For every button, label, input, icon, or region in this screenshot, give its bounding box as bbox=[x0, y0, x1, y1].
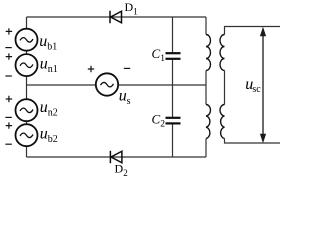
svg-text:C: C bbox=[152, 111, 161, 126]
inductor L1 primary upper winding bbox=[206, 35, 211, 71]
diode D2 bbox=[110, 151, 122, 163]
wire primary bottom lead bbox=[205, 139, 207, 158]
source u_n2 bbox=[16, 99, 38, 121]
svg-text:u: u bbox=[40, 126, 48, 143]
wire left vertical source chain bbox=[26, 17, 28, 157]
diode D1 bbox=[110, 11, 122, 23]
svg-text:D: D bbox=[115, 162, 124, 176]
source u_b1 bbox=[16, 29, 38, 51]
capacitor C2 plates bbox=[166, 118, 181, 124]
svg-text:u: u bbox=[40, 56, 48, 73]
source u_s bbox=[96, 73, 118, 95]
wire secondary top lead bbox=[225, 27, 281, 35]
source u_n1 bbox=[16, 54, 38, 76]
wire secondary bottom lead bbox=[225, 139, 281, 144]
svg-text:u: u bbox=[119, 88, 127, 105]
wire top horizontal bbox=[27, 16, 207, 18]
wire primary center tap bbox=[205, 71, 207, 105]
wire bottom horizontal bbox=[27, 156, 207, 158]
polarity signs u_b2 bbox=[5, 122, 12, 144]
wire secondary middle bbox=[224, 71, 226, 105]
inductor L4 secondary lower winding bbox=[220, 105, 225, 139]
svg-text:u: u bbox=[39, 33, 47, 50]
svg-text:n1: n1 bbox=[48, 64, 58, 75]
svg-text:b2: b2 bbox=[48, 134, 58, 145]
svg-text:n2: n2 bbox=[48, 108, 58, 119]
svg-text:sc: sc bbox=[252, 84, 261, 95]
wire primary top lead bbox=[205, 17, 207, 35]
wire capacitor branch middle bbox=[172, 59, 174, 118]
svg-text:1: 1 bbox=[160, 54, 165, 64]
svg-text:u: u bbox=[40, 99, 48, 116]
inductor L3 secondary upper winding bbox=[220, 35, 225, 71]
svg-text:C: C bbox=[152, 46, 161, 61]
arrow u_sc measurement bbox=[260, 27, 266, 143]
svg-text:b1: b1 bbox=[47, 42, 57, 53]
polarity signs u_n1 bbox=[5, 53, 12, 76]
wire middle horizontal bbox=[27, 84, 207, 86]
svg-text:1: 1 bbox=[133, 7, 138, 17]
inductor L2 primary lower winding bbox=[206, 105, 210, 139]
source u_b2 bbox=[16, 124, 38, 146]
wire capacitor branch upper bbox=[172, 17, 174, 53]
wire capacitor branch lower bbox=[172, 124, 174, 157]
svg-text:D: D bbox=[125, 0, 134, 14]
svg-text:s: s bbox=[127, 96, 131, 107]
polarity signs u_b1 bbox=[5, 28, 12, 47]
polarity signs u_n2 bbox=[5, 96, 12, 118]
svg-text:2: 2 bbox=[160, 119, 165, 129]
svg-text:2: 2 bbox=[123, 168, 128, 177]
polarity signs u_s bbox=[88, 66, 130, 72]
capacitor C1 plates bbox=[166, 53, 181, 59]
